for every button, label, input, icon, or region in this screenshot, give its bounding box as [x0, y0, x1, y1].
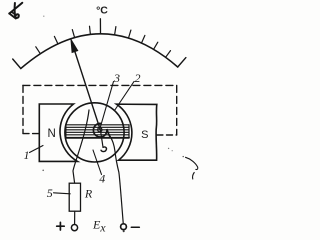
leader line for 3	[100, 82, 114, 130]
resistor R body	[69, 183, 80, 211]
leader line for 5	[54, 193, 71, 194]
hairspring spiral	[93, 123, 110, 137]
wire from spiral to right terminal	[110, 137, 123, 223]
scale tick left end	[13, 59, 21, 69]
dashed case top edge	[23, 84, 177, 86]
faint speck top area	[43, 16, 44, 17]
magnet N pole block	[39, 104, 77, 161]
dashed case right edge	[176, 85, 178, 134]
stray mark lead-in dot	[183, 156, 184, 157]
terminal + circle	[71, 225, 77, 231]
scale tick 8	[129, 30, 131, 38]
wire from coil to resistor	[73, 110, 89, 183]
handwritten scribble mark top-left	[9, 3, 22, 19]
stray pen tick right side	[193, 173, 195, 180]
faint speck near label 5	[42, 170, 44, 172]
plus sign	[57, 222, 64, 230]
svg-text:R: R	[84, 187, 93, 201]
dashed case left edge	[22, 85, 24, 133]
svg-text:3: 3	[113, 71, 120, 85]
scale tick 9	[142, 35, 145, 43]
needle tail	[101, 131, 104, 148]
scale tick 7	[115, 27, 116, 35]
pivot small circle	[98, 128, 102, 132]
needle counterweight hook	[101, 147, 106, 152]
scale tick 11	[166, 51, 171, 58]
dashed stub left to N pole	[23, 133, 40, 135]
scale tick 10	[154, 42, 158, 49]
coil former circle	[65, 103, 124, 162]
dashed stub right to S pole	[157, 134, 177, 136]
wire resistor to + terminal	[74, 211, 76, 224]
needle (pointer) line	[74, 50, 100, 131]
scale tick 5	[89, 26, 92, 34]
leader line for 4	[93, 150, 102, 175]
svg-text:°C: °C	[96, 5, 108, 17]
magnet S pole block	[117, 104, 157, 160]
svg-text:x: x	[99, 221, 106, 235]
stray pen mark right side	[186, 157, 198, 169]
needle arrowhead	[71, 39, 78, 52]
scale tick 4	[72, 30, 74, 38]
svg-text:4: 4	[99, 172, 105, 186]
minus sign	[131, 226, 139, 228]
artifact dot below minus terminal	[123, 230, 125, 232]
scale tick 3	[54, 36, 58, 44]
svg-text:1: 1	[24, 148, 30, 162]
coil winding band	[66, 125, 129, 138]
faint speck dots right side	[168, 148, 169, 149]
scale tick right end	[178, 58, 186, 67]
svg-text:5: 5	[47, 186, 53, 200]
scale tick center under °C	[99, 19, 101, 34]
scale tick 2	[36, 47, 41, 54]
terminal - circle	[121, 224, 127, 230]
svg-text:N: N	[47, 128, 55, 140]
leader line for 2	[115, 82, 135, 111]
leader line for 1	[30, 146, 44, 153]
svg-text:2: 2	[135, 71, 141, 85]
scale arc	[21, 34, 178, 69]
svg-text:S: S	[141, 129, 148, 141]
